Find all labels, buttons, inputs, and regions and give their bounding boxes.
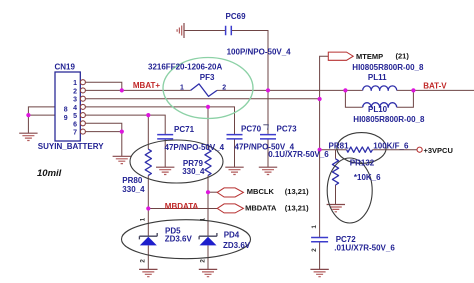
svg-text:1: 1 (311, 225, 318, 229)
svg-text:1: 1 (199, 217, 206, 221)
svg-text:8: 8 (64, 107, 68, 114)
svg-text:7: 7 (73, 130, 77, 137)
svg-text:HI0805R800R-00_8: HI0805R800R-00_8 (353, 115, 425, 124)
svg-text:10mil: 10mil (37, 168, 62, 179)
svg-text:PR132: PR132 (350, 159, 375, 168)
svg-text:2: 2 (311, 248, 318, 252)
svg-text:3: 3 (73, 97, 77, 104)
svg-text:+3VPCU: +3VPCU (424, 146, 453, 155)
svg-text:MBAT+: MBAT+ (133, 81, 161, 90)
svg-text:MBCLK: MBCLK (247, 187, 275, 196)
svg-text:2: 2 (73, 88, 77, 95)
svg-text:*10K_6: *10K_6 (354, 173, 381, 182)
svg-text:100P/NPO-50V_4: 100P/NPO-50V_4 (227, 48, 292, 57)
svg-text:(21): (21) (396, 52, 410, 61)
svg-text:ZD3.6V: ZD3.6V (223, 241, 251, 250)
svg-text:CN19: CN19 (55, 63, 76, 72)
svg-text:0.1U/X7R-50V_6: 0.1U/X7R-50V_6 (268, 150, 329, 159)
svg-text:PC71: PC71 (174, 125, 195, 134)
svg-text:PL11: PL11 (368, 73, 387, 82)
svg-text:1: 1 (180, 84, 184, 91)
svg-text:ZD3.6V: ZD3.6V (165, 234, 193, 243)
svg-text:1: 1 (73, 80, 77, 87)
svg-text:47P/NPO-50V_4: 47P/NPO-50V_4 (165, 143, 225, 152)
svg-text:5: 5 (73, 113, 77, 120)
svg-text:2: 2 (199, 259, 206, 263)
svg-text:9: 9 (64, 115, 68, 122)
svg-text:PD4: PD4 (224, 231, 240, 240)
svg-text:PC73: PC73 (277, 125, 298, 134)
svg-text:1: 1 (140, 217, 147, 221)
svg-text:PR80: PR80 (122, 176, 143, 185)
svg-text:PC69: PC69 (226, 12, 247, 21)
svg-text:3216FF20-1206-20A: 3216FF20-1206-20A (148, 63, 222, 72)
svg-text:330_4: 330_4 (122, 185, 145, 194)
svg-text:2: 2 (140, 259, 147, 263)
svg-text:330_4: 330_4 (182, 167, 205, 176)
svg-text:BAT-V: BAT-V (423, 81, 447, 90)
svg-text:.01U/X7R-50V_6: .01U/X7R-50V_6 (334, 243, 395, 252)
svg-text:MBDATA: MBDATA (245, 203, 277, 212)
svg-text:MTEMP: MTEMP (356, 52, 383, 61)
svg-text:(13,21): (13,21) (285, 203, 309, 212)
svg-text:6: 6 (73, 121, 77, 128)
svg-text:MBDATA: MBDATA (165, 202, 199, 211)
svg-text:2: 2 (222, 84, 226, 91)
svg-text:(13,21): (13,21) (285, 187, 309, 196)
svg-text:100K/F_6: 100K/F_6 (373, 142, 409, 151)
svg-text:4: 4 (73, 105, 77, 112)
svg-text:HI0805R800R-00_8: HI0805R800R-00_8 (352, 63, 424, 72)
svg-text:PR81: PR81 (329, 142, 350, 151)
svg-text:SUYIN_BATTERY: SUYIN_BATTERY (38, 142, 104, 151)
svg-text:PF3: PF3 (200, 73, 215, 82)
svg-text:PL10: PL10 (368, 105, 388, 114)
svg-text:PC70: PC70 (241, 124, 262, 133)
